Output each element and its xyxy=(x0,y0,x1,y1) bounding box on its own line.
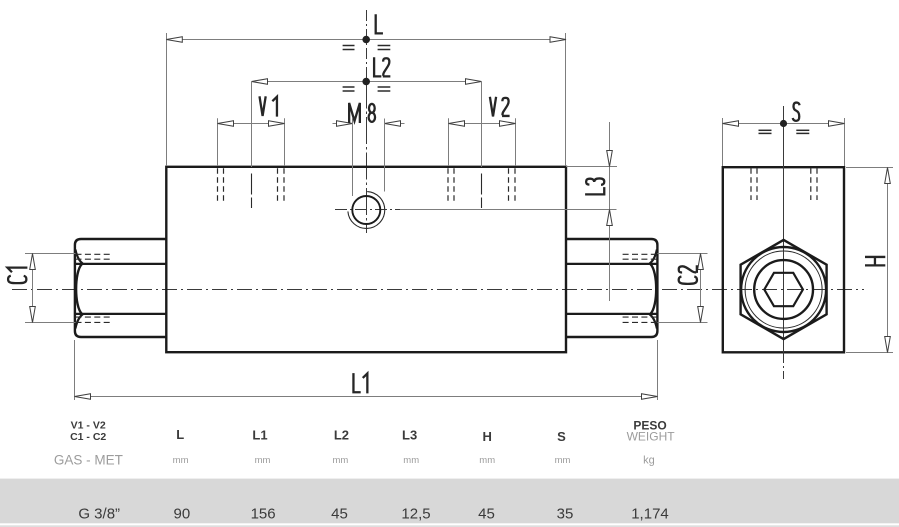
L3 arrows xyxy=(607,151,613,167)
svg-text:mm: mm xyxy=(555,455,571,466)
side view vertical centerline xyxy=(783,106,785,352)
V1 dimension line xyxy=(218,123,285,125)
V2 label xyxy=(490,97,510,117)
svg-text:G 3/8”: G 3/8” xyxy=(78,506,120,523)
C2 label xyxy=(679,265,697,284)
right hex fitting outline xyxy=(566,239,657,337)
S symmetry dot xyxy=(780,120,787,127)
svg-text:mm: mm xyxy=(255,455,271,466)
svg-text:mm: mm xyxy=(332,455,348,466)
V2 dimension line xyxy=(449,123,516,125)
L2 right extension line xyxy=(481,82,483,168)
L2 symmetry marks xyxy=(343,86,355,88)
svg-text:12,5: 12,5 xyxy=(401,506,430,523)
C1 arrows xyxy=(30,254,36,270)
svg-text:mm: mm xyxy=(173,455,189,466)
allen socket hex xyxy=(764,273,803,306)
left fitting thread dashed lines xyxy=(76,253,111,255)
V2 port hole dashed lines xyxy=(447,168,449,201)
L arrows xyxy=(166,37,182,43)
svg-text:mm: mm xyxy=(403,455,419,466)
hex nut (end view) xyxy=(741,240,827,339)
L3 dimension line xyxy=(609,122,611,301)
C2 dimension line xyxy=(700,254,702,323)
right fitting thread dashed lines xyxy=(623,253,657,255)
svg-text:H: H xyxy=(483,429,492,444)
data row band xyxy=(0,479,899,524)
L1 dimension line xyxy=(75,396,658,398)
vertical centerline through M8 hole xyxy=(366,82,368,234)
V1 arrows xyxy=(218,121,234,127)
S arrows xyxy=(723,121,739,127)
L3 label xyxy=(585,178,604,194)
M8 arrows xyxy=(337,121,353,127)
chamfer circle thin xyxy=(745,251,822,328)
svg-text:156: 156 xyxy=(251,506,276,523)
vertical centerline top (front view) xyxy=(366,10,368,82)
right fitting chamfer arcs xyxy=(650,250,657,264)
chamfer circle thick xyxy=(741,247,826,332)
svg-text:1,174: 1,174 xyxy=(631,506,669,523)
svg-text:kg: kg xyxy=(643,455,655,467)
S dimension line xyxy=(723,123,845,125)
L1 label xyxy=(353,373,367,393)
L3 bottom extension line (hole centerline extended) xyxy=(400,209,617,211)
V1 port hole dashed lines xyxy=(217,168,219,201)
svg-text:mm: mm xyxy=(479,455,495,466)
M8 label xyxy=(349,103,375,123)
M8 hole circle inner xyxy=(352,196,380,224)
svg-text:L: L xyxy=(176,427,184,442)
H dimension line xyxy=(887,168,889,353)
L2 arrows xyxy=(252,79,268,85)
right fitting hex flat lines xyxy=(566,263,657,265)
inner bore circle xyxy=(754,260,813,319)
left fitting chamfer arcs xyxy=(75,250,82,264)
svg-text:90: 90 xyxy=(174,506,191,523)
H label xyxy=(865,257,885,265)
svg-text:45: 45 xyxy=(331,506,348,523)
H arrows xyxy=(885,168,891,184)
svg-text:L3: L3 xyxy=(402,428,417,443)
L label xyxy=(376,14,383,33)
svg-text:S: S xyxy=(557,429,566,444)
C2 arrows xyxy=(698,254,704,270)
L2 symmetry dot xyxy=(362,78,370,86)
M8 hole horizontal centerline xyxy=(335,209,402,211)
S symmetry marks xyxy=(759,129,772,131)
left fitting hex flat lines xyxy=(76,263,167,265)
body (front view) xyxy=(166,167,566,352)
V2 arrows xyxy=(449,121,465,127)
H extension lines xyxy=(846,167,893,169)
V1 label xyxy=(260,96,277,116)
V2 dimension extension lines xyxy=(448,118,450,165)
L2 left extension line xyxy=(251,82,253,168)
M8 extension lines xyxy=(352,119,354,197)
L2 dimension line xyxy=(252,81,482,83)
L1 extension lines xyxy=(74,340,76,400)
L dimension line xyxy=(166,39,566,41)
side view port hole dashed lines xyxy=(750,168,752,200)
svg-text:35: 35 xyxy=(557,506,574,523)
L2 label xyxy=(374,57,390,76)
V1 dimension extension lines xyxy=(217,118,219,165)
L dimension extension lines xyxy=(166,33,168,166)
M8 hole circle outer xyxy=(348,192,385,229)
L1 arrows xyxy=(75,394,91,400)
L symmetry dot xyxy=(362,36,370,44)
C2 extension lines xyxy=(657,253,707,255)
C1 extension lines xyxy=(25,253,76,255)
left hex fitting outline xyxy=(75,239,166,337)
C1 label xyxy=(8,268,28,284)
S label xyxy=(793,103,800,121)
svg-text:C1 - C2: C1 - C2 xyxy=(70,431,106,443)
svg-text:V1 - V2: V1 - V2 xyxy=(71,420,106,432)
svg-text:L2: L2 xyxy=(334,428,349,443)
svg-text:WEIGHT: WEIGHT xyxy=(627,430,676,444)
side view square xyxy=(723,167,844,352)
svg-text:GAS - MET: GAS - MET xyxy=(54,453,123,468)
C1 dimension line xyxy=(32,254,34,323)
S dimension extension lines xyxy=(722,118,724,166)
svg-text:L1: L1 xyxy=(252,428,267,443)
L symmetry marks xyxy=(343,45,355,47)
M8 dimension lines xyxy=(333,123,353,125)
main horizontal centerline xyxy=(12,289,864,291)
svg-text:45: 45 xyxy=(478,506,495,523)
L3 top extension line xyxy=(566,166,617,168)
